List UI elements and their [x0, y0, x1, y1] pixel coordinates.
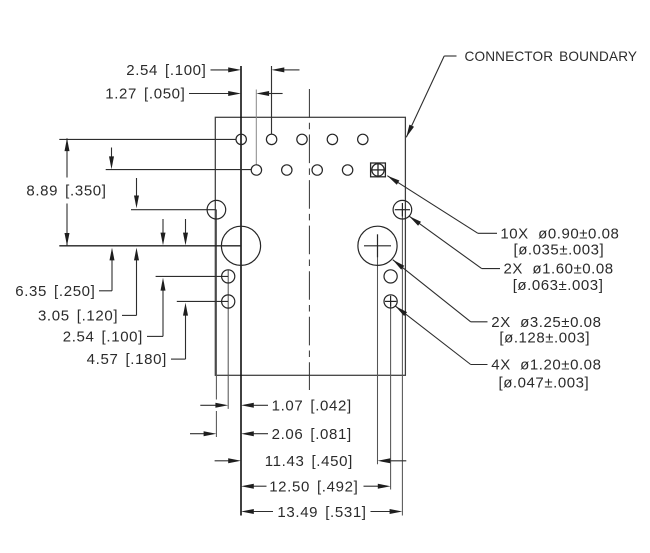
svg-text:6.35 [.250]: 6.35 [.250] — [15, 283, 95, 300]
extension line 1.20 row 1 y=276.4 — [156, 275, 229, 277]
1.20 hole left lower — [222, 295, 235, 308]
extension line pin row 1 y=139.4 — [59, 138, 236, 140]
extension line col pin A1 / big hole left x=241 — [240, 66, 242, 516]
svg-text:10X ø0.90±0.08: 10X ø0.90±0.08 — [500, 225, 619, 242]
extension line 1.60 hole row y=209.7 — [131, 209, 216, 211]
3.25 hole left — [221, 226, 260, 265]
extension line big hole right x=377.5 — [377, 246, 379, 464]
svg-text:[ø.063±.003]: [ø.063±.003] — [513, 277, 604, 294]
vertical centerline — [308, 89, 310, 390]
extension line 1.60 hole left x=216.4 — [215, 210, 217, 400]
extension line col pin A2 x=271.5 — [271, 66, 273, 134]
extension line big hole row y=245.8 — [59, 245, 241, 247]
svg-text:2X ø1.60±0.08: 2X ø1.60±0.08 — [504, 261, 614, 278]
svg-text:1.27 [.050]: 1.27 [.050] — [105, 86, 185, 103]
1.20 hole right upper — [384, 270, 397, 283]
svg-text:[ø.047±.003]: [ø.047±.003] — [499, 374, 590, 391]
pin hole A3 — [297, 134, 307, 144]
pin hole B4 — [342, 165, 352, 175]
svg-text:CONNECTOR BOUNDARY: CONNECTOR BOUNDARY — [465, 49, 638, 64]
svg-text:2.54 [.100]: 2.54 [.100] — [63, 329, 143, 346]
1.60 hole left — [207, 200, 226, 219]
connector boundary rectangle — [215, 117, 405, 375]
extension line 1.60 hole right x=402.4 — [401, 210, 403, 516]
svg-text:13.49 [.531]: 13.49 [.531] — [277, 504, 366, 521]
svg-text:4X ø1.20±0.08: 4X ø1.20±0.08 — [491, 357, 601, 374]
datum target pin hole B5 (square+circle+cross) — [370, 163, 385, 178]
svg-text:[ø.035±.003]: [ø.035±.003] — [514, 242, 605, 259]
1.20 hole right lower with cross — [384, 295, 397, 308]
pin hole B1 — [251, 165, 261, 175]
svg-text:2.54 [.100]: 2.54 [.100] — [126, 62, 206, 79]
extension line 1.20 holes left x=228.2 — [227, 270, 229, 409]
1.60 hole right with cross — [393, 200, 412, 219]
svg-text:4.57 [.180]: 4.57 [.180] — [87, 351, 167, 368]
extension line 1.20 row 2 y=301.4 — [177, 300, 228, 302]
pin hole A1 — [236, 134, 246, 144]
pin hole B2 — [282, 165, 292, 175]
svg-text:11.43 [.450]: 11.43 [.450] — [265, 453, 353, 470]
svg-text:2X ø3.25±0.08: 2X ø3.25±0.08 — [491, 314, 601, 331]
svg-text:2.06 [.081]: 2.06 [.081] — [272, 426, 352, 443]
pin hole A2 — [266, 134, 276, 144]
svg-text:8.89 [.350]: 8.89 [.350] — [26, 183, 106, 200]
pin hole B3 — [312, 165, 322, 175]
svg-text:12.50 [.492]: 12.50 [.492] — [269, 478, 358, 495]
svg-text:1.07 [.042]: 1.07 [.042] — [272, 397, 352, 414]
extension line col pin B1 x=256.3 — [255, 90, 257, 165]
svg-text:[ø.128±.003]: [ø.128±.003] — [499, 330, 590, 347]
1.20 hole left upper — [222, 270, 235, 283]
extension line pin row 2 y=169.6 — [106, 169, 252, 171]
3.25 hole right with cross — [358, 226, 397, 265]
svg-text:3.05 [.120]: 3.05 [.120] — [38, 308, 118, 325]
pin hole A5 — [358, 134, 368, 144]
pin hole A4 — [327, 134, 337, 144]
extension line 1.20 holes right x=390.6 — [390, 301, 392, 489]
